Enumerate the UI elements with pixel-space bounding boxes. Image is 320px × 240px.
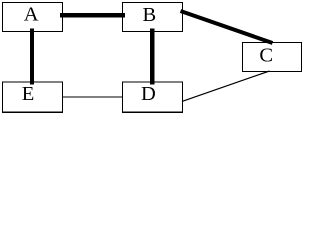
edge B-C (thick diagonal) bbox=[181, 11, 273, 43]
edge D-C (thin diagonal) bbox=[182, 71, 270, 101]
edge B-D (thick) bbox=[150, 29, 154, 85]
node A box bbox=[3, 3, 63, 32]
edge A-B (thick) bbox=[60, 13, 125, 17]
svg-text:C: C bbox=[259, 45, 273, 67]
node C box bbox=[243, 42, 302, 71]
node B box bbox=[122, 3, 182, 32]
node E box bbox=[2, 82, 62, 112]
edge A-E (thick) bbox=[30, 29, 34, 85]
svg-text:B: B bbox=[143, 4, 157, 26]
node D box bbox=[122, 82, 182, 112]
svg-text:A: A bbox=[24, 4, 39, 26]
edge E-D (thin) bbox=[62, 96, 123, 98]
svg-text:D: D bbox=[141, 83, 156, 105]
svg-text:E: E bbox=[22, 83, 35, 105]
